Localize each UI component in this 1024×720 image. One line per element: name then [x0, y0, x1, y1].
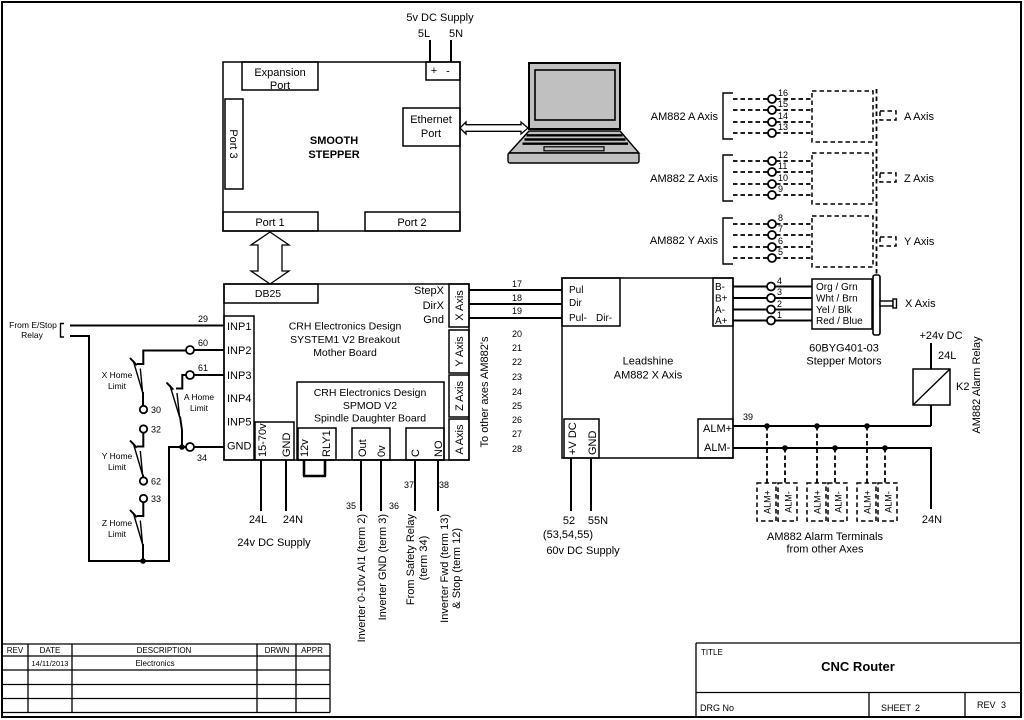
dashed driver box Z — [812, 153, 873, 204]
wire relay to ALM+ — [930, 405, 932, 426]
svg-text:13: 13 — [778, 122, 788, 132]
5v terminal block + - — [426, 62, 460, 80]
svg-text:62: 62 — [151, 477, 161, 487]
svg-text:Wht / Brn: Wht / Brn — [816, 294, 858, 305]
svg-text:K2: K2 — [956, 381, 969, 393]
svg-text:Org / Grn: Org / Grn — [816, 282, 858, 293]
svg-text:26: 26 — [512, 415, 522, 425]
A home limit switch — [170, 385, 180, 417]
port 2 — [365, 212, 460, 231]
motor body — [873, 275, 880, 335]
svg-text:7: 7 — [778, 224, 783, 234]
svg-text:-: - — [446, 66, 450, 78]
svg-text:Leadshine: Leadshine — [623, 356, 674, 368]
15-70v GND terminal box — [255, 422, 294, 460]
wire 29 to INP1 — [70, 325, 224, 327]
svg-text:From E/Stop: From E/Stop — [9, 320, 57, 330]
laptop base — [508, 153, 639, 163]
svg-text:30: 30 — [151, 405, 161, 415]
svg-text:3: 3 — [1001, 700, 1006, 710]
junction ALM- 3 — [882, 445, 888, 451]
motor shaft — [880, 301, 893, 306]
svg-text:X Axis: X Axis — [454, 290, 466, 321]
wire 36 from 0v — [380, 460, 382, 511]
svg-text:Gnd: Gnd — [423, 314, 444, 326]
svg-text:Limit: Limit — [108, 462, 127, 472]
svg-text:A Axis: A Axis — [904, 111, 934, 123]
phase wire A+ — [733, 320, 767, 322]
Y home limit switch — [137, 433, 143, 447]
svg-text:24: 24 — [512, 387, 522, 397]
svg-text:ALM+: ALM+ — [703, 423, 732, 435]
phase output box — [713, 278, 733, 326]
laptop screen — [529, 63, 620, 129]
svg-text:GND: GND — [227, 441, 252, 453]
svg-text:Stepper Motors: Stepper Motors — [806, 356, 882, 368]
wire 35 from Out — [360, 460, 362, 511]
svg-text:12: 12 — [778, 150, 788, 160]
svg-text:Limit: Limit — [190, 403, 209, 413]
C NO terminal box — [406, 428, 444, 460]
wire 24L from 15-70v — [260, 460, 262, 511]
svg-text:19: 19 — [512, 306, 522, 316]
svg-text:INP1: INP1 — [227, 321, 251, 333]
svg-text:33: 33 — [151, 494, 161, 504]
svg-text:Relay: Relay — [21, 330, 43, 340]
svg-text:ALM+: ALM+ — [763, 490, 773, 514]
svg-text:GND: GND — [281, 433, 293, 458]
svg-text:Inverter Fwd (term 13): Inverter Fwd (term 13) — [439, 514, 451, 623]
dashed shaft stub Y — [880, 237, 896, 246]
svg-text:24v DC Supply: 24v DC Supply — [237, 537, 311, 549]
dashed driver box A — [812, 91, 873, 142]
alarm terminal box pair 1 — [757, 483, 776, 521]
bracket — [723, 155, 733, 201]
svg-text:34: 34 — [197, 453, 207, 463]
junction at GND node — [179, 444, 185, 450]
dashed shaft stub Z — [880, 173, 896, 182]
svg-text:38: 38 — [439, 480, 449, 490]
svg-text:INP4: INP4 — [227, 393, 251, 405]
svg-text:AM882 A Axis: AM882 A Axis — [651, 111, 719, 123]
DB25 connector box — [224, 284, 318, 303]
svg-text:ALM+: ALM+ — [863, 490, 873, 514]
svg-text:StepX: StepX — [414, 285, 445, 297]
svg-text:Spindle Daughter Board: Spindle Daughter Board — [314, 413, 426, 425]
svg-text:29: 29 — [198, 314, 208, 324]
svg-text:6: 6 — [778, 236, 783, 246]
svg-text:60: 60 — [198, 338, 208, 348]
svg-text:A+: A+ — [715, 316, 728, 327]
laptop keyboard — [509, 131, 639, 153]
wire 60 to INP2 — [194, 349, 224, 351]
svg-text:Port: Port — [421, 128, 441, 140]
svg-text:Port 1: Port 1 — [255, 217, 284, 229]
svg-text:5v DC Supply: 5v DC Supply — [406, 12, 474, 24]
e/stop bracket — [61, 324, 65, 338]
svg-text:5: 5 — [778, 247, 783, 257]
12v RLY1 terminal box — [298, 428, 336, 460]
terminal 32 — [140, 425, 147, 432]
wire 18 DirX-Dir — [469, 303, 562, 305]
svg-text:A Home: A Home — [184, 392, 215, 402]
junction ALM- 2 — [832, 445, 838, 451]
dashed pin wires + terminals — [733, 98, 812, 100]
group: AM882 A Axis — [651, 88, 935, 142]
ethernet double arrow — [460, 122, 528, 134]
svg-text:ALM+: ALM+ — [813, 490, 823, 514]
svg-text:INP3: INP3 — [227, 370, 251, 382]
wire 5L — [429, 40, 431, 62]
svg-text:32: 32 — [151, 425, 161, 435]
svg-text:REV: REV — [977, 700, 996, 710]
svg-text:SHEET: SHEET — [881, 703, 912, 713]
group: AM882 Y Axis — [650, 213, 935, 267]
svg-text:ALM-: ALM- — [784, 491, 794, 513]
svg-text:24L: 24L — [249, 514, 267, 526]
terminal 62 — [140, 477, 147, 484]
svg-text:DATE: DATE — [40, 646, 61, 655]
svg-text:DB25: DB25 — [255, 288, 281, 300]
svg-text:Electronics: Electronics — [135, 659, 174, 668]
svg-text:AM882 Y Axis: AM882 Y Axis — [650, 235, 719, 247]
junction at Z switch bottom — [140, 558, 146, 564]
svg-text:3: 3 — [777, 287, 782, 297]
A axis port box — [449, 419, 469, 460]
Out 0v terminal box — [352, 428, 390, 460]
leadshine drive box — [562, 278, 733, 458]
svg-text:Expansion: Expansion — [254, 67, 305, 79]
svg-text:52: 52 — [563, 515, 575, 527]
svg-text:RLY1: RLY1 — [321, 430, 333, 457]
phase wire A- — [733, 309, 767, 311]
SPMOD daughter board box — [297, 382, 444, 460]
svg-text:Ethernet: Ethernet — [410, 114, 452, 126]
svg-text:ALM-: ALM- — [834, 491, 844, 513]
svg-text:Z Axis: Z Axis — [904, 173, 934, 185]
terminal 30 — [140, 406, 147, 413]
wire 24L to relay — [930, 343, 932, 369]
svg-text:35: 35 — [346, 501, 356, 511]
svg-text:DESCRIPTION: DESCRIPTION — [137, 646, 192, 655]
wire 19 Gnd-Pul- — [469, 317, 562, 319]
laptop — [508, 63, 639, 163]
port 1 — [223, 212, 318, 231]
relay K2 — [913, 369, 950, 405]
svg-text:+24v DC: +24v DC — [919, 330, 962, 342]
svg-text:Dir: Dir — [569, 298, 582, 309]
pul/dir input box — [562, 278, 620, 326]
svg-text:11: 11 — [778, 161, 787, 171]
svg-text:(53,54,55): (53,54,55) — [543, 529, 593, 541]
svg-text:5L: 5L — [418, 28, 430, 40]
svg-text:12v: 12v — [299, 439, 311, 457]
svg-text:CRH Electronics Design: CRH Electronics Design — [289, 321, 402, 333]
svg-text:TITLE: TITLE — [701, 648, 723, 657]
svg-text:Pul: Pul — [569, 285, 583, 296]
breakout mother board box — [224, 284, 469, 460]
svg-text:Inverter 0-10v AI1 (term 2): Inverter 0-10v AI1 (term 2) — [356, 514, 368, 642]
svg-text:20: 20 — [512, 329, 522, 339]
title box — [696, 643, 1021, 717]
svg-text:1: 1 — [777, 310, 782, 320]
input terminal strip — [224, 316, 254, 460]
svg-text:55N: 55N — [588, 515, 608, 527]
dashed driver box Y — [812, 216, 873, 267]
svg-text:5N: 5N — [449, 28, 463, 40]
svg-text:from other Axes: from other Axes — [786, 544, 864, 556]
dashed alarm drops ALM+ — [767, 426, 867, 483]
alarm terminal box pair 3 — [857, 483, 876, 521]
svg-text:NO: NO — [433, 440, 445, 457]
svg-text:& Stop (term 12): & Stop (term 12) — [451, 528, 463, 609]
bracket — [723, 218, 733, 264]
svg-text:A Axis: A Axis — [454, 424, 466, 454]
svg-text:Z Home: Z Home — [102, 518, 133, 528]
svg-text:REV: REV — [7, 646, 24, 655]
svg-text:C: C — [410, 449, 422, 457]
phase wire B+ — [733, 297, 767, 299]
dashed shaft stub A — [880, 111, 896, 120]
svg-text:25: 25 — [512, 401, 522, 411]
svg-text:4: 4 — [777, 276, 782, 286]
svg-text:2: 2 — [915, 703, 920, 713]
svg-text:17: 17 — [512, 279, 522, 289]
svg-text:Limit: Limit — [108, 529, 127, 539]
svg-text:Inverter GND (term 3): Inverter GND (term 3) — [377, 514, 389, 620]
svg-text:0v: 0v — [376, 445, 388, 457]
wire 24N from GND — [285, 460, 287, 511]
smooth stepper board box — [223, 62, 460, 231]
svg-text:Z Axis: Z Axis — [454, 381, 466, 411]
svg-text:39: 39 — [743, 412, 753, 422]
svg-text:+: + — [431, 65, 437, 77]
svg-text:Red / Blue: Red / Blue — [816, 316, 863, 327]
svg-text:X Axis: X Axis — [905, 298, 936, 310]
ALM output box — [698, 419, 733, 458]
bracket — [723, 93, 733, 139]
svg-text:DirX: DirX — [423, 300, 445, 312]
X axis port box — [449, 284, 469, 327]
svg-text:24L: 24L — [938, 350, 956, 362]
svg-text:DRWN: DRWN — [265, 646, 290, 655]
terminal 33 — [140, 495, 147, 502]
svg-text:AM882 Alarm Relay: AM882 Alarm Relay — [971, 336, 983, 434]
svg-text:ALM-: ALM- — [704, 442, 731, 454]
svg-text:CRH Electronics Design: CRH Electronics Design — [314, 387, 427, 399]
svg-text:CNC Router: CNC Router — [821, 659, 895, 674]
e/stop return wire — [70, 336, 186, 561]
junction ALM+ 2 — [814, 423, 820, 429]
Y axis port box — [449, 330, 469, 373]
dashed alarm drops ALM- — [785, 448, 885, 483]
svg-text:60BYG401-03: 60BYG401-03 — [809, 343, 879, 355]
junction ALM+ 1 — [764, 423, 770, 429]
wire 37 from C — [414, 460, 416, 511]
svg-text:AM882 X Axis: AM882 X Axis — [614, 370, 683, 382]
wire ALM+ bus — [733, 425, 931, 427]
svg-text:(term 34): (term 34) — [418, 536, 430, 581]
X home limit switch — [133, 361, 142, 393]
svg-text:SMOOTH: SMOOTH — [310, 135, 358, 147]
svg-text:24N: 24N — [922, 514, 942, 526]
svg-text:8: 8 — [778, 213, 783, 223]
wire 5N — [450, 40, 452, 62]
wire 61 to INP3 — [194, 374, 224, 376]
svg-text:+V DC: +V DC — [567, 422, 579, 455]
svg-text:9: 9 — [778, 184, 783, 194]
svg-text:Port 3: Port 3 — [227, 129, 239, 158]
svg-text:36: 36 — [389, 501, 399, 511]
svg-text:27: 27 — [512, 429, 522, 439]
revision table — [2, 644, 330, 713]
svg-text:15-70v: 15-70v — [257, 423, 269, 457]
wire ALM- bus to 24N — [733, 448, 931, 509]
port 3 — [225, 99, 243, 189]
svg-text:15: 15 — [778, 99, 788, 109]
svg-text:INP5: INP5 — [227, 417, 251, 429]
svg-text:Port: Port — [270, 80, 290, 92]
svg-text:21: 21 — [512, 343, 522, 353]
svg-text:AM882 Alarm Terminals: AM882 Alarm Terminals — [767, 531, 883, 543]
svg-text:Limit: Limit — [108, 381, 127, 391]
alarm terminal box pair 2 — [807, 483, 826, 521]
svg-text:SPMOD V2: SPMOD V2 — [343, 400, 397, 412]
phase wire B- — [733, 286, 767, 288]
+V DC / GND terminal box — [564, 419, 599, 458]
svg-text:B+: B+ — [715, 294, 728, 305]
svg-text:14/11/2013: 14/11/2013 — [32, 659, 69, 668]
expansion port — [242, 62, 318, 90]
svg-text:24N: 24N — [283, 514, 303, 526]
svg-text:A-: A- — [715, 305, 725, 316]
svg-text:ALM-: ALM- — [884, 491, 894, 513]
svg-text:16: 16 — [778, 88, 788, 98]
svg-text:Port 2: Port 2 — [397, 217, 426, 229]
motor wire colour box — [812, 279, 872, 329]
svg-text:Y Axis: Y Axis — [454, 336, 466, 367]
svg-text:61: 61 — [198, 363, 208, 373]
svg-text:From Safety Relay: From Safety Relay — [405, 514, 417, 606]
junction ALM+ 3 — [864, 423, 870, 429]
svg-text:28: 28 — [512, 444, 522, 454]
svg-text:10: 10 — [778, 173, 788, 183]
svg-text:SYSTEM1 V2 Breakout: SYSTEM1 V2 Breakout — [290, 334, 400, 346]
svg-text:2: 2 — [777, 299, 782, 309]
12v-RLY1 link — [303, 460, 326, 476]
DB25 double arrow — [251, 232, 289, 284]
wire 17 StepX-Pul — [469, 289, 562, 291]
svg-text:Dir-: Dir- — [596, 313, 612, 324]
Z axis port box — [449, 375, 469, 417]
wire 52 from +V DC — [570, 458, 572, 511]
svg-text:Pul-: Pul- — [569, 313, 587, 324]
svg-text:37: 37 — [404, 480, 414, 490]
junction ALM- 1 — [782, 445, 788, 451]
svg-text:DRG No: DRG No — [700, 703, 734, 713]
svg-text:APPR: APPR — [301, 646, 323, 655]
svg-text:22: 22 — [512, 357, 522, 367]
svg-text:B-: B- — [715, 282, 725, 293]
svg-text:X Home: X Home — [102, 370, 133, 380]
svg-text:Y Axis: Y Axis — [904, 236, 935, 248]
svg-text:GND: GND — [587, 431, 599, 456]
dashed motor chain line — [876, 89, 878, 275]
svg-text:Out: Out — [357, 439, 369, 457]
svg-text:14: 14 — [778, 111, 788, 121]
wire 55N from GND — [590, 458, 592, 511]
wire 38 from NO — [437, 460, 439, 511]
svg-text:Mother Board: Mother Board — [313, 347, 377, 359]
svg-text:60v DC Supply: 60v DC Supply — [546, 545, 620, 557]
svg-text:To other axes AM882's: To other axes AM882's — [479, 336, 491, 447]
svg-text:Y Home: Y Home — [102, 451, 133, 461]
svg-text:INP2: INP2 — [227, 345, 251, 357]
svg-text:18: 18 — [512, 293, 522, 303]
svg-text:Yel / Blk: Yel / Blk — [816, 305, 853, 316]
svg-text:AM882 Z Axis: AM882 Z Axis — [650, 173, 718, 185]
terminal 34 wire to GND — [194, 446, 224, 448]
group: AM882 Z Axis — [650, 150, 934, 204]
Z home limit switch — [137, 503, 143, 517]
ethernet port — [403, 108, 460, 146]
svg-text:STEPPER: STEPPER — [308, 149, 359, 161]
svg-text:23: 23 — [512, 372, 522, 382]
